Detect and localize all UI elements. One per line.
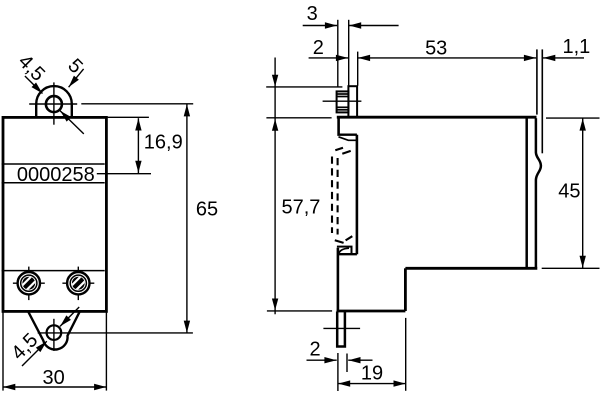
- leader arrow to bottom hole upper right: [60, 307, 79, 326]
- leader arrow for label 4,5 top: [25, 76, 43, 94]
- dimension 16,9 line: [137, 118, 139, 173]
- dimension 3 left arrow: [303, 25, 338, 27]
- side view step vertical: [404, 268, 407, 311]
- bottom pin crossbar: [323, 327, 360, 329]
- side view lower right edge: [405, 267, 537, 270]
- terminal screw right inner ring: [70, 275, 86, 291]
- svg-text:30: 30: [42, 367, 64, 389]
- dimension 57,7 top down arrowhead: [272, 75, 278, 87]
- dimension 19 extension right: [405, 318, 407, 391]
- front view label strip lower line: [2, 182, 105, 184]
- dimension 2 top left arrow: [309, 57, 349, 59]
- svg-text:53: 53: [425, 37, 447, 59]
- top mounting hole: [46, 96, 62, 112]
- dimension 53 line shared with 2 right arrow: [358, 57, 536, 59]
- dimension 45 extension top: [546, 117, 600, 119]
- dimension 57,7 up arrowhead at body top: [272, 119, 278, 131]
- dimension 2 bottom extension right: [346, 354, 348, 373]
- top hook detail solid: [339, 137, 357, 141]
- leader arrow for label 5: [69, 69, 84, 87]
- top mounting tab: [36, 86, 72, 117]
- dimension 3 right arrow: [349, 25, 399, 27]
- dimension 57,7 bottom down arrowhead: [272, 299, 278, 311]
- front view body outline: [3, 117, 106, 311]
- bottom pin: [337, 312, 345, 347]
- front view terminal section line: [2, 270, 105, 272]
- flange plate thin line right: [541, 49, 543, 153]
- side view clamp plate: [348, 86, 357, 117]
- svg-text:2: 2: [313, 37, 324, 59]
- side view right wall inner: [525, 118, 528, 268]
- clip hook box top: [337, 246, 353, 248]
- svg-text:1,1: 1,1: [563, 36, 591, 58]
- side view clamp screw box: [337, 91, 349, 112]
- svg-text:3: 3: [307, 3, 318, 25]
- terminal screw left outer ring: [18, 272, 40, 294]
- hidden clip dashed bottom hook segment a: [335, 240, 344, 243]
- bottom mounting tab: [28, 312, 79, 349]
- dimension 30 line: [3, 386, 106, 388]
- terminal screw right crosshair: [77, 267, 79, 301]
- side view notch step: [337, 133, 357, 135]
- dimension 2 extension right: [357, 52, 359, 86]
- flange plate thin line left: [536, 49, 538, 114]
- dimension 2 bottom left arrow: [307, 359, 337, 361]
- side view left edge upper: [337, 117, 340, 133]
- dimension 3 extension right: [348, 20, 350, 86]
- top hole crosshair horizontal: [29, 103, 77, 105]
- terminal screw left inner ring: [21, 275, 37, 291]
- dimension 16,9 extension top: [108, 116, 149, 118]
- terminal screw left slotted disc: [22, 277, 35, 290]
- clip hook box right: [351, 247, 353, 255]
- leader arrow for label 4,5 bottom: [22, 341, 47, 366]
- dimension 65 line: [186, 104, 188, 333]
- hidden clip dashed left line: [331, 157, 333, 234]
- clamp centerline: [323, 100, 362, 102]
- dimension 2 bottom extension left: [337, 353, 339, 391]
- hidden clip dashed bottom hook segment b: [346, 236, 353, 240]
- dimension 30 extension left: [2, 312, 4, 391]
- terminal screw left crosshair: [28, 267, 30, 301]
- extension line from top hole centre to 65 dim: [81, 103, 193, 105]
- dimension 3 extension left: [337, 20, 339, 87]
- dimension 45 line: [582, 118, 584, 268]
- side view bottom edge: [337, 310, 406, 313]
- clamp screw slot lines: [337, 93, 349, 95]
- side view top edge: [337, 116, 537, 119]
- svg-text:19: 19: [361, 362, 383, 384]
- terminal screw right outer ring: [67, 272, 89, 294]
- front view label strip upper line: [2, 163, 105, 165]
- clip hook arc: [339, 248, 349, 254]
- extension line body top: [266, 117, 331, 119]
- dimension 19 line: [338, 383, 406, 385]
- leader arrow to top hole inner circle: [60, 111, 84, 134]
- dimension 1,1 arrow: [543, 57, 584, 59]
- svg-text:16,9: 16,9: [144, 132, 183, 154]
- hidden clip dashed right line: [337, 158, 339, 235]
- dimension 57,7 line: [274, 58, 276, 315]
- svg-text:2: 2: [309, 339, 320, 361]
- hidden clip dashed top hook segment b: [342, 151, 350, 154]
- bottom hole crosshair vertical: [53, 319, 55, 351]
- top hole crosshair vertical: [53, 82, 55, 124]
- svg-text:65: 65: [196, 198, 218, 220]
- bottom hole crosshair horizontal and 65 dim extension: [38, 332, 193, 334]
- svg-text:57,7: 57,7: [282, 196, 321, 218]
- svg-text:45: 45: [558, 181, 580, 203]
- leader line from serial text: [97, 173, 151, 175]
- side view recess bottom line: [337, 253, 357, 255]
- terminal screw right slotted disc: [72, 277, 85, 290]
- extension line pin bottom: [267, 310, 332, 312]
- dimension 45 extension bottom: [542, 267, 600, 269]
- dimension 30 extension right: [105, 312, 107, 391]
- bottom mounting hole: [47, 325, 62, 340]
- hidden clip dashed top hook segment a: [335, 148, 343, 151]
- dimension 2 bottom right arrow: [348, 359, 372, 361]
- side view recess back wall: [356, 135, 359, 255]
- side view right wall outer with break bump: [536, 118, 541, 267]
- side view left edge lower: [337, 248, 340, 312]
- extension line clamp top: [266, 86, 342, 88]
- svg-text:0000258: 0000258: [17, 164, 95, 186]
